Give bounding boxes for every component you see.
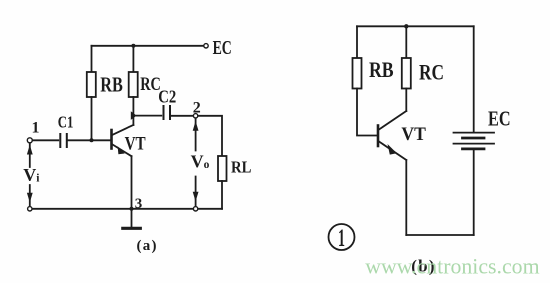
svg-text:3: 3 (135, 196, 143, 212)
wire RC top lead (b) (405, 26, 407, 58)
svg-text:C2: C2 (158, 87, 176, 107)
emitter arrow (b) (388, 144, 397, 155)
Vo arrow line (195, 119, 197, 206)
wire RC bottom to collector (405, 89, 407, 112)
transistor VT (a) emitter (113, 145, 132, 157)
resistor RC (a) (129, 72, 138, 97)
battery EC plate long (454, 143, 495, 145)
capacitor C1 (60, 134, 67, 147)
wire bottom rail right (198, 208, 222, 210)
wire top rail (b) (357, 25, 474, 27)
battery EC plate long top (454, 132, 495, 134)
wire right column top (battery +) (473, 26, 475, 132)
resistor RC (b) (402, 58, 411, 89)
circled number 1 (329, 224, 355, 250)
node junction RC-top rail (131, 44, 135, 48)
resistor RL (218, 156, 227, 181)
node 3 junction dot (130, 207, 134, 211)
terminal bottom-left open circle (28, 207, 32, 211)
svg-text:C1: C1 (58, 112, 74, 131)
svg-text:(a): (a) (137, 238, 157, 254)
terminal node 2 open circle (193, 114, 197, 118)
arrow at collector node pointing right (131, 111, 137, 120)
node junction RC-top rail (b) (404, 24, 408, 28)
wire RB bottom to base (357, 89, 377, 136)
svg-text:1: 1 (32, 119, 40, 136)
wire RB top lead (91, 46, 93, 72)
wire C2 to node 2 (171, 115, 193, 117)
ground (131, 209, 133, 227)
svg-text:2: 2 (193, 99, 201, 116)
wire right column bottom (473, 150, 475, 235)
capacitor C2 (164, 106, 171, 119)
battery EC plate short bottom (463, 147, 485, 150)
svg-text:Vi: Vi (23, 165, 40, 185)
wire bottom rail (b) (406, 234, 473, 236)
wire bottom rail left (32, 208, 193, 210)
wire RB bottom lead (91, 97, 93, 140)
wire RB top lead (b) (356, 26, 358, 58)
wire top rail (a) (92, 45, 204, 47)
wire collector to C2 (137, 115, 162, 117)
svg-text:www.cntronics.com: www.cntronics.com (365, 254, 539, 279)
resistor RB (b) (353, 58, 362, 89)
svg-text:VT: VT (401, 124, 426, 145)
svg-text:RC: RC (419, 60, 444, 85)
svg-text:EC: EC (488, 107, 511, 131)
svg-text:VT: VT (125, 134, 146, 155)
transistor VT (b) collector (379, 111, 406, 130)
wire node2 to RL top (198, 116, 222, 156)
wire emitter down (131, 156, 133, 209)
battery EC plate short (463, 137, 485, 140)
svg-text:EC: EC (213, 37, 232, 59)
wire node1 to C1 (33, 139, 59, 141)
wire emitter down (b) (405, 160, 407, 235)
svg-text:RB: RB (369, 57, 394, 82)
wire C1 to base (68, 139, 111, 141)
svg-text:RL: RL (231, 157, 251, 176)
terminal bottom-right open circle (193, 207, 197, 211)
wire RC bottom lead to collector (132, 97, 134, 125)
transistor VT (b) base bar (377, 126, 380, 147)
terminal EC open circle (204, 44, 208, 48)
Vi arrow line (29, 143, 31, 206)
svg-text:RB: RB (100, 73, 123, 97)
transistor VT (b) emitter (379, 142, 406, 161)
emitter arrow (a) (118, 146, 125, 154)
svg-text:Vo: Vo (191, 152, 210, 172)
transistor VT (a) base bar (110, 130, 113, 149)
resistor RB (a) (87, 72, 96, 97)
wire RL bottom lead (221, 181, 223, 209)
node junction RB-base (90, 138, 94, 142)
transistor VT (a) collector (113, 125, 134, 135)
svg-text:1: 1 (338, 225, 345, 252)
wire RC top lead (132, 46, 134, 72)
terminal node 1 open circle (27, 138, 32, 143)
